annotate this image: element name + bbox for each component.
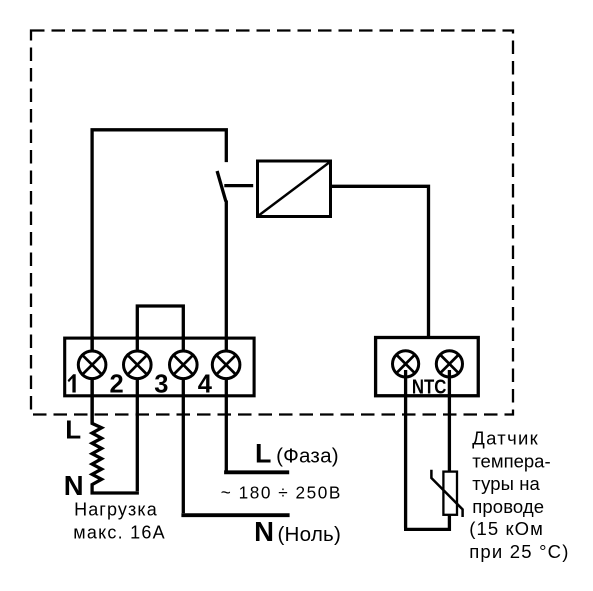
terminal 3 circle (170, 351, 198, 379)
relay / regulator box U1 (258, 161, 331, 217)
svg-text:N: N (254, 516, 274, 547)
svg-text:Датчик: Датчик (472, 427, 539, 448)
NTC terminal right circle (436, 351, 462, 377)
svg-text:N: N (64, 470, 84, 501)
wire from terminal 1 up across to switch (92, 130, 226, 424)
terminal 2 circle (124, 351, 152, 379)
dashed device enclosure (31, 31, 513, 415)
load resistor zigzag (Нагрузка) with bottom wire to terminal 2 (92, 336, 139, 493)
N (Ноль) lead wire (181, 513, 289, 517)
svg-text:проводе: проводе (472, 496, 544, 517)
svg-text:Нагрузка: Нагрузка (74, 499, 158, 519)
svg-text:(Ноль): (Ноль) (278, 523, 342, 546)
wire stub from switch to relay box (224, 184, 253, 187)
svg-text:2: 2 (110, 371, 124, 399)
switch S1 blade (217, 171, 226, 201)
svg-text:(Фаза): (Фаза) (276, 444, 339, 467)
wire terminal 2 down to load bottom (136, 336, 139, 491)
NTC terminal left circle (393, 351, 419, 377)
terminal block X1 (65, 338, 254, 396)
wire NTC right terminal down to thermistor (448, 370, 451, 472)
wire from switch down to terminal 4 and out to L lead (225, 201, 228, 471)
text Датчик температуры на проводе (469, 427, 569, 562)
svg-text:~ 180 ÷ 250В: ~ 180 ÷ 250В (221, 482, 342, 502)
svg-text:при 25 °С): при 25 °С) (469, 541, 569, 562)
terminal 1 circle (78, 351, 106, 379)
svg-text:NTC: NTC (412, 377, 447, 399)
wire NTC left terminal down and across (404, 370, 449, 529)
NTC terminal block (376, 338, 479, 396)
jumper wire between terminals 2 and 3 (137, 306, 183, 339)
svg-text:темпера-: темпера- (472, 450, 550, 471)
svg-text:L: L (65, 415, 81, 445)
L (Фаза) lead wire (224, 470, 289, 474)
terminal number 1 (68, 374, 76, 392)
svg-text:(15 кОм: (15 кОм (469, 518, 544, 539)
relay box diagonal (258, 162, 331, 217)
svg-text:3: 3 (154, 371, 168, 399)
svg-text:макс. 16А: макс. 16А (73, 522, 166, 542)
svg-text:L: L (255, 438, 271, 468)
wire from relay box to NTC terminal block (332, 186, 429, 339)
terminal 4 circle (212, 351, 240, 379)
thermistor diagonal with hooks (431, 470, 462, 517)
wire thermistor bottom (448, 515, 451, 531)
thermistor RT (NTC sensor) body (443, 472, 457, 515)
svg-text:туры на: туры на (472, 473, 540, 494)
wire terminal 3 down and out to N lead (182, 336, 185, 513)
svg-text:4: 4 (198, 371, 213, 399)
